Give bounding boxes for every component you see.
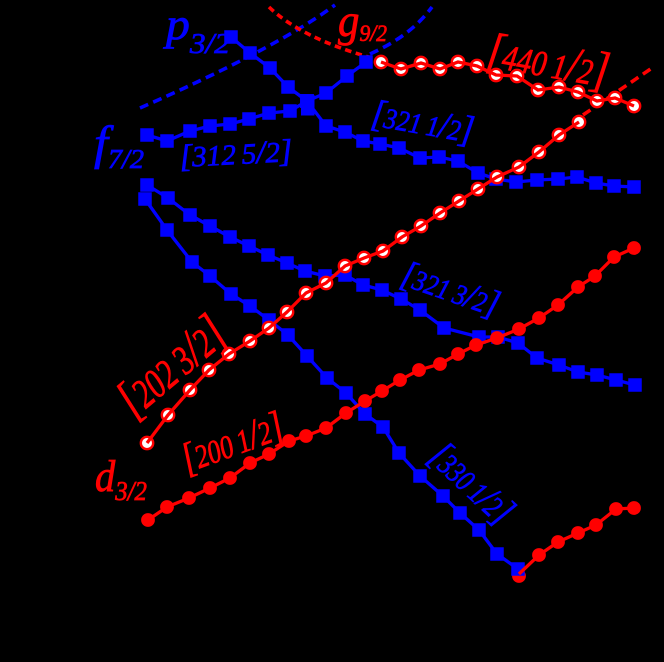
red cap marker under final [330 1/2] square (start of rising red branch) [512, 569, 526, 583]
p3/2 falling branch into junction: blue square markers [224, 30, 314, 108]
blue dashed extrapolation rising from [440 1/2] head [370, 7, 432, 54]
p3/2 falling branch into junction: blue line [231, 37, 307, 101]
branch rising from junction toward [440 1/2] head: blue line [307, 62, 366, 101]
red branch rising from [330 1/2] minimum: filled circle markers [532, 501, 641, 562]
orbital [440 1/2] (open circles): red line over markers [381, 62, 634, 106]
orbital [330 1/2]: blue square markers [138, 192, 525, 576]
junction blob of blue curves [301, 95, 315, 116]
orbital [330 1/2]: blue line [145, 199, 518, 569]
orbital [312 5/2] (f7/2 to junction): blue line [147, 101, 307, 141]
branch rising from junction toward [440 1/2] head: blue square markers [300, 55, 373, 108]
red branch rising from [330 1/2] minimum: red line [519, 508, 634, 574]
orbital [312 5/2] (f7/2 to junction): blue square markers [140, 94, 314, 148]
blue dashed extrapolation of p3/2 level (lower-left rising to top edge) [140, 5, 335, 108]
orbital [202 3/2] (open circles): open-circle markers [141, 116, 585, 449]
red dashed extrapolation of [202 3/2] beyond crossing [583, 68, 652, 115]
orbital [321 1/2]: blue square markers [300, 94, 641, 194]
orbital [202 3/2] (open circles): red line over markers [147, 122, 579, 443]
orbital [321 1/2]: blue line [307, 101, 634, 187]
orbital [440 1/2] (open circles): open-circle markers [375, 56, 640, 112]
red dotted g9/2 spherical level descending to [440 1/2] head [269, 7, 372, 58]
orbital [200 1/2] (filled circles): filled circle markers [141, 241, 641, 527]
orbital [321 3/2]: blue square markers [140, 178, 642, 392]
orbital [200 1/2] (filled circles): red line [148, 248, 634, 520]
orbital [321 3/2]: blue line [147, 185, 635, 385]
